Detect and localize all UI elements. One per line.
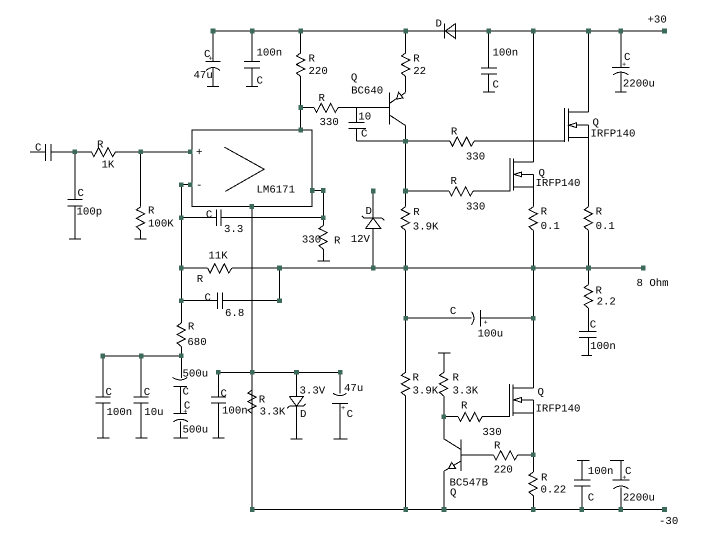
wire: BC640 collector column [405, 141, 407, 191]
svg-text:330: 330 [466, 152, 485, 164]
svg-text:+: + [484, 320, 488, 328]
node: op-amp pin junctions [188, 128, 314, 209]
resistor R 330 (M3 gate) [444, 401, 510, 440]
svg-text:2200u: 2200u [623, 79, 655, 91]
svg-text:+: + [209, 56, 213, 64]
svg-text:R: R [148, 206, 155, 218]
svg-text:+: + [622, 475, 626, 483]
svg-text:LM6171: LM6171 [257, 185, 295, 197]
svg-text:47u: 47u [344, 383, 363, 395]
resistor R 0.1 (M1 source) [584, 206, 615, 268]
svg-text:3.9K: 3.9K [413, 386, 439, 398]
resistor R 3.9K (BC640 collector load) [401, 191, 439, 268]
svg-text:D: D [300, 409, 306, 421]
wire: feedback vertical line [180, 185, 182, 356]
svg-text:100n: 100n [493, 48, 519, 60]
wire: negative driver column [405, 268, 407, 318]
node: left bypass junctions [101, 354, 184, 359]
svg-text:C: C [144, 387, 150, 399]
capacitor C 100n (Zobel) [579, 320, 616, 356]
svg-text:R: R [413, 54, 420, 66]
resistor R 330 (BC640 base) [301, 93, 390, 129]
capacitor C 100n (left bypass) [95, 356, 132, 438]
svg-text:-30: -30 [659, 516, 678, 528]
resistor R 3.3K (lower, open top) [438, 353, 479, 417]
capacitor C 47u (supply filter) [194, 31, 221, 87]
capacitor C 500u + C 500u (series electrolytics) [173, 356, 209, 438]
node: middle bypass junctions [216, 370, 343, 375]
resistor R 330 (M2 gate) [406, 176, 510, 214]
diode D (supply decoupling) [436, 18, 489, 38]
wire: to op-amp + input [141, 151, 192, 153]
resistor R 11K (feedback, in output rail) [197, 251, 232, 287]
svg-text:3.3V: 3.3V [300, 385, 326, 397]
svg-text:100p: 100p [77, 207, 103, 219]
transistor Q BC640 [351, 72, 406, 141]
capacitor C 100u (bootstrap) [406, 306, 534, 341]
node: C100u junctions [403, 316, 535, 321]
svg-text:+: + [183, 409, 187, 417]
resistor R 3.3K (middle bypass) [248, 390, 286, 419]
svg-text:R: R [334, 236, 341, 248]
wire: +30 top supply rail [213, 15, 667, 32]
svg-text:330: 330 [320, 117, 339, 129]
svg-text:10u: 10u [144, 407, 163, 419]
svg-text:C: C [590, 320, 596, 332]
svg-text:100K: 100K [148, 219, 174, 231]
resistor R 2.2 (Zobel) [584, 268, 616, 331]
svg-text:R: R [541, 206, 548, 218]
svg-text:Q: Q [450, 488, 456, 500]
svg-text:100u: 100u [478, 328, 504, 340]
svg-text:IRFP140: IRFP140 [591, 129, 636, 141]
capacitor C 100n (supply filter) [244, 31, 282, 88]
svg-text:C: C [221, 389, 227, 401]
svg-text:R: R [259, 394, 266, 406]
svg-text:+: + [196, 147, 202, 159]
capacitor C 100n (middle bypass) [211, 372, 248, 438]
svg-text:10: 10 [358, 111, 371, 123]
svg-text:330: 330 [302, 234, 321, 246]
svg-text:330: 330 [482, 427, 501, 439]
svg-text:BC640: BC640 [351, 86, 383, 98]
svg-text:R: R [413, 373, 420, 385]
svg-text:D: D [366, 206, 372, 218]
node: input junctions [73, 150, 143, 155]
svg-text:C: C [347, 409, 353, 421]
node: output rail junctions [179, 266, 645, 271]
capacitor C 2200u (main supply filter -) [610, 461, 655, 510]
capacitor C 47u (middle bypass) [332, 372, 363, 439]
svg-text:C: C [35, 143, 41, 155]
svg-text:100n: 100n [588, 466, 614, 478]
svg-text:C: C [493, 80, 499, 92]
svg-text:0.1: 0.1 [596, 221, 615, 233]
svg-text:680: 680 [187, 337, 206, 349]
svg-text:C: C [78, 188, 84, 200]
transistor Q BC547B [444, 417, 489, 510]
svg-text:0.1: 0.1 [541, 221, 560, 233]
resistor R 330 (op-amp output load) [302, 218, 341, 261]
svg-text:C: C [588, 492, 594, 504]
node: M3 gate junction [442, 414, 447, 419]
capacitor C 10u (left bypass) [134, 356, 164, 438]
svg-text:Q: Q [351, 72, 357, 84]
node: M2 gate wire junctions [371, 189, 408, 194]
svg-text:330: 330 [466, 202, 485, 214]
capacitor C 100n (negative supply bypass) [574, 461, 613, 510]
svg-text:R: R [319, 93, 326, 105]
capacitor C 100n (driver supply) [481, 31, 518, 92]
svg-text:-: - [196, 180, 202, 192]
svg-text:22: 22 [413, 66, 426, 78]
resistor R 330 (M1 gate) [406, 126, 565, 163]
svg-text:6.8: 6.8 [225, 308, 244, 320]
wire: op-amp output to feedback column [312, 188, 326, 217]
svg-text:R: R [97, 140, 104, 152]
wire: 8 Ohm output rail (with feedback tap) [181, 268, 668, 290]
svg-text:IRFP140: IRFP140 [536, 178, 581, 190]
capacitor C 2200u (main supply filter +) [612, 31, 655, 92]
mosfet Q IRFP140 (top) [565, 31, 636, 207]
wire: -30 bottom supply rail [252, 510, 678, 529]
svg-text:3.3K: 3.3K [453, 386, 479, 398]
svg-text:C: C [106, 387, 112, 399]
wire: op-amp inverting input [179, 182, 192, 187]
svg-text:R: R [494, 441, 501, 453]
svg-text:100n: 100n [222, 406, 248, 418]
mosfet Q IRFP140 (bottom) [510, 384, 581, 455]
capacitor C (input coupling) [30, 143, 75, 161]
resistor R 100K (input bias) [135, 152, 175, 239]
resistor R 0.22 (M3 source) [529, 455, 566, 510]
svg-text:R: R [451, 176, 458, 188]
svg-text:C: C [257, 76, 263, 88]
wire: C6.8 to output rail [279, 268, 281, 301]
svg-text:R: R [451, 126, 458, 138]
node: R220/M3 source junction [531, 452, 536, 457]
svg-text:+: + [341, 405, 345, 413]
svg-text:220: 220 [309, 66, 328, 78]
wire: left bypass bus [103, 355, 181, 357]
svg-text:R: R [453, 373, 460, 385]
junction node overlay (nodes drawn on top of wires) [73, 29, 667, 512]
zener diode D 3.3V [287, 372, 326, 439]
svg-text:R: R [596, 206, 603, 218]
svg-text:3.9K: 3.9K [413, 222, 439, 234]
svg-text:100n: 100n [590, 341, 616, 353]
capacitor C 3.3 (feedback) [179, 210, 326, 237]
resistor R 1K (input series) [75, 140, 141, 172]
zener diode D 12V [351, 191, 385, 268]
svg-text:R: R [188, 322, 195, 334]
svg-text:R: R [197, 274, 204, 286]
svg-text:0.22: 0.22 [541, 485, 567, 497]
svg-text:IRFP140: IRFP140 [536, 404, 581, 416]
wire: M2 drain to +30 [532, 31, 534, 162]
svg-text:Q: Q [538, 387, 544, 399]
svg-text:100n: 100n [257, 48, 283, 60]
wire: middle bypass bus [218, 371, 340, 373]
svg-text:R: R [541, 473, 548, 485]
svg-text:3.3K: 3.3K [260, 407, 286, 419]
capacitor C 100p (input to ground) [67, 152, 102, 239]
mosfet Q IRFP140 (middle) [510, 158, 581, 207]
resistor R 0.1 (M2 source) [529, 206, 560, 268]
svg-text:1K: 1K [102, 160, 115, 172]
svg-text:+30: +30 [648, 15, 667, 27]
svg-text:C: C [361, 129, 367, 141]
svg-text:3.3: 3.3 [224, 224, 243, 236]
svg-text:220: 220 [494, 465, 513, 477]
svg-text:2200u: 2200u [623, 492, 655, 504]
svg-text:C: C [450, 306, 456, 318]
wire: op-amp V- supply column [251, 207, 253, 510]
node: BC640 collector junction [403, 139, 408, 144]
svg-text:C: C [205, 292, 211, 304]
svg-text:C: C [183, 387, 189, 399]
svg-text:C: C [206, 210, 212, 222]
svg-text:11K: 11K [208, 251, 228, 263]
svg-text:47u: 47u [194, 70, 213, 82]
svg-text:+: + [622, 62, 626, 70]
resistor R 220 (BC547B base) [461, 441, 533, 477]
svg-text:R: R [309, 54, 316, 66]
resistor R 220 (V+ feed) [296, 31, 327, 130]
svg-text:500u: 500u [183, 369, 209, 381]
svg-text:2.2: 2.2 [597, 296, 616, 308]
svg-text:R: R [413, 207, 420, 219]
wire: M3 drain column [532, 268, 534, 388]
svg-text:500u: 500u [183, 425, 209, 437]
svg-text:R: R [461, 401, 468, 413]
capacitor C 6.8 (feedback lag) [179, 292, 282, 320]
op-amp U1 LM6171 [192, 130, 312, 207]
node: R220/R330 junction [298, 105, 303, 110]
resistor R 3.9K (lower) [401, 318, 438, 509]
node: top rail junctions [211, 29, 667, 34]
node: bottom rail junctions [250, 507, 667, 512]
capacitor C 10 (BC640 base bypass) [349, 108, 406, 141]
svg-text:D: D [436, 18, 442, 30]
svg-text:100n: 100n [107, 407, 133, 419]
svg-text:8 Ohm: 8 Ohm [637, 278, 669, 290]
resistor R 22 (BC640 emitter) [401, 31, 426, 92]
svg-text:12V: 12V [351, 234, 371, 246]
resistor R 680 (feedback shunt) [177, 322, 207, 349]
